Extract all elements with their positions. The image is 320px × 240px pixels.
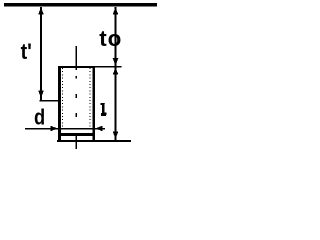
hole bottom edge (thick) xyxy=(58,133,95,136)
thread line right (dotted) xyxy=(89,68,91,128)
svg-text:d: d xyxy=(34,106,45,130)
extension line from hole top to dimension line xyxy=(95,66,122,67)
dimension line to / l (vertical right) xyxy=(114,7,116,140)
arrowhead t' bottom (points down) xyxy=(38,91,44,98)
dimension line t' (vertical) xyxy=(40,7,42,101)
arrowhead d left (points right) xyxy=(51,126,58,132)
hole right edge xyxy=(92,66,95,142)
svg-text:to: to xyxy=(99,26,122,51)
arrowhead to bottom (points down) xyxy=(113,58,119,65)
hole top edge (thick) xyxy=(58,66,95,68)
centerline dash 2 xyxy=(76,94,77,98)
thread line left (dotted) xyxy=(62,68,64,128)
arrowhead l bottom (points down) xyxy=(113,132,119,139)
dimension line d (horizontal, thread end) xyxy=(25,128,105,130)
hole left edge xyxy=(58,66,61,142)
svg-text:t': t' xyxy=(21,40,32,64)
centerline dash 3 xyxy=(76,113,77,117)
label l xyxy=(101,103,107,116)
centerline above hole xyxy=(76,46,78,70)
surface line (top thick workpiece surface) xyxy=(4,3,157,7)
extension line at hole bottom (for l) xyxy=(57,140,131,142)
centerline dash 1 xyxy=(76,76,77,79)
arrowhead d right (points left) xyxy=(95,126,102,132)
arrowhead t' top (points up) xyxy=(38,7,44,14)
extension line at thread depth t' xyxy=(39,100,58,102)
arrowhead l top (points up) xyxy=(113,67,119,74)
centerline below hole xyxy=(76,136,78,149)
arrowhead to top (points up) xyxy=(113,7,119,14)
